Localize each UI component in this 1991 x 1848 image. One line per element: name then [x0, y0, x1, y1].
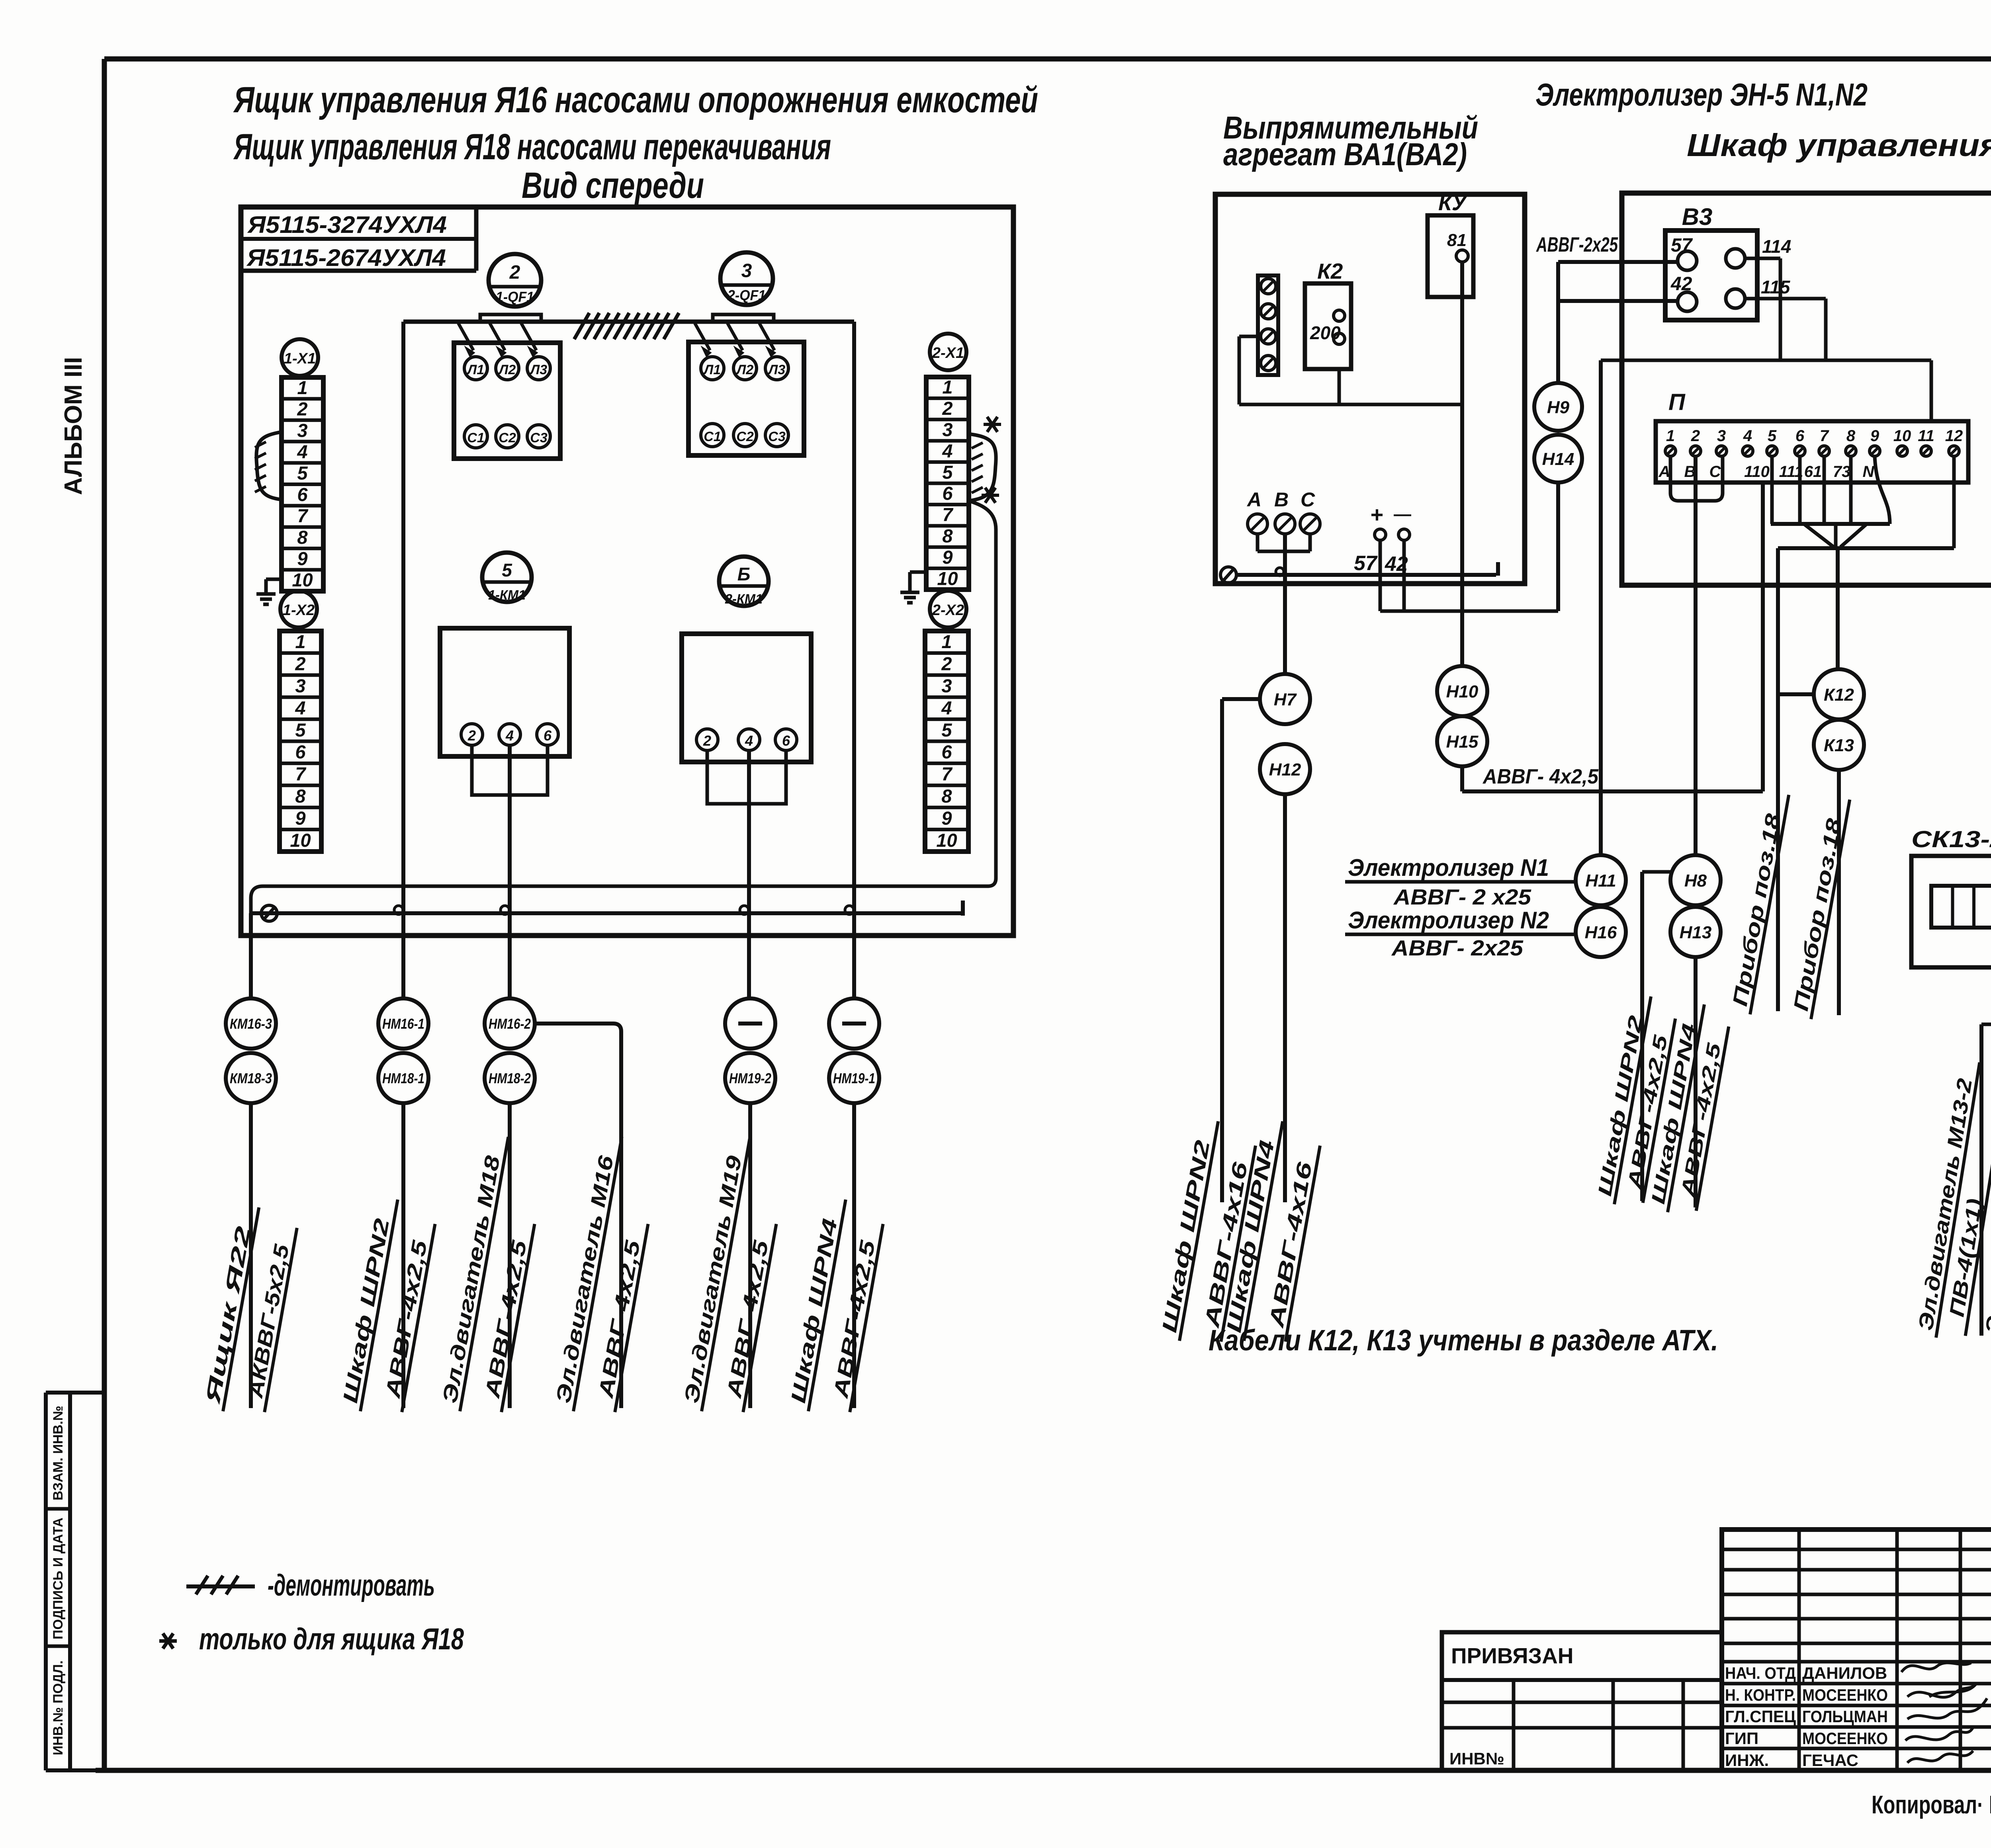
- svg-text:8: 8: [942, 525, 953, 546]
- cable circles Н10 Н15: [1437, 666, 1487, 716]
- svg-text:С1: С1: [704, 429, 721, 444]
- terminal strip 1-X2: [280, 591, 317, 627]
- svg-text:Электролизер ЭН-5 N1,N2: Электролизер ЭН-5 N1,N2: [1535, 77, 1868, 112]
- svg-text:7: 7: [295, 764, 306, 785]
- trident merge: [1804, 524, 1834, 547]
- legend demolish symbol: [186, 1584, 255, 1588]
- wire П2 drop to Н8: [1694, 456, 1698, 855]
- svg-text:4: 4: [295, 697, 305, 718]
- svg-text:7: 7: [297, 505, 308, 526]
- svg-text:ИНЖ.: ИНЖ.: [1725, 1751, 1769, 1770]
- svg-text:Н10: Н10: [1446, 682, 1479, 701]
- svg-text:ГЕЧАС: ГЕЧАС: [1802, 1751, 1858, 1770]
- wire joining phases: [1256, 534, 1260, 551]
- svg-text:9: 9: [942, 547, 952, 568]
- svg-text:Электролизер N1: Электролизер N1: [1348, 854, 1549, 881]
- wires from В3 right: [1745, 257, 1780, 260]
- svg-text:МОСЕЕНКО: МОСЕЕНКО: [1802, 1686, 1888, 1704]
- svg-text:2: 2: [942, 398, 952, 419]
- svg-text:8: 8: [295, 785, 306, 807]
- title block: attach table ПРИВЯЗАН: [1442, 1632, 1722, 1770]
- svg-text:2: 2: [467, 727, 476, 744]
- svg-text:7: 7: [941, 764, 952, 785]
- svg-text:5: 5: [502, 560, 512, 580]
- svg-text:2: 2: [703, 733, 711, 749]
- svg-text:Л1: Л1: [466, 362, 484, 377]
- svg-text:С: С: [1301, 488, 1315, 511]
- wire: П bundle down to Прибор cable 1: [1776, 548, 1780, 1011]
- svg-text:7: 7: [1820, 427, 1829, 445]
- cabinet box Я16/Я18: [241, 207, 1013, 936]
- wire: phase B drop to Н7: [1283, 534, 1287, 674]
- svg-text:115: 115: [1761, 277, 1791, 297]
- svg-text:5: 5: [941, 719, 952, 740]
- type table Я5115: [241, 269, 476, 273]
- arrows into 1-QF1 poles: [458, 323, 473, 350]
- svg-text:КУ: КУ: [1438, 190, 1468, 215]
- svg-text:3: 3: [941, 675, 952, 696]
- cable label Шкаф ШРN4: [786, 1196, 886, 1418]
- svg-text:4: 4: [297, 441, 307, 462]
- circuit breaker 2-QF1 box: [688, 342, 804, 455]
- svg-text:1-QF1: 1-QF1: [496, 289, 534, 305]
- svg-text:3: 3: [295, 675, 305, 696]
- svg-text:Н8: Н8: [1684, 871, 1707, 891]
- ground at 2-X1: [910, 570, 926, 574]
- wire across ШУ1 to П: [1601, 359, 1931, 362]
- svg-text:НАЧ. ОТД: НАЧ. ОТД: [1725, 1664, 1796, 1682]
- branch wire to М16 cable: [534, 1024, 621, 1408]
- svg-text:6: 6: [544, 727, 552, 744]
- svg-text:1: 1: [1666, 427, 1675, 445]
- svg-text:СК13-2(СК14-2): СК13-2(СК14-2): [1911, 826, 1991, 852]
- svg-text:К12: К12: [1824, 685, 1854, 705]
- svg-text:Н16: Н16: [1585, 923, 1617, 942]
- svg-text:9: 9: [1870, 427, 1880, 445]
- СК terminal strip: [1931, 886, 1991, 928]
- wire: dc +/- to Н9 cable: [1379, 540, 1382, 611]
- svg-text:Б: Б: [737, 564, 751, 584]
- svg-text:1: 1: [941, 631, 952, 652]
- svg-text:2-Х1: 2-Х1: [932, 345, 964, 361]
- svg-text:8: 8: [941, 785, 952, 807]
- svg-text:10: 10: [290, 830, 311, 851]
- svg-text:ГОЛЬЦМАН: ГОЛЬЦМАН: [1802, 1707, 1888, 1726]
- svg-text:Я5115-2674УХЛ4: Я5115-2674УХЛ4: [246, 244, 446, 271]
- wire: 1-КМ1 pole 4 drop: [508, 745, 512, 998]
- wire: below Н14: [1556, 483, 1560, 611]
- svg-text:1: 1: [942, 377, 952, 398]
- svg-text:Н9: Н9: [1547, 398, 1570, 417]
- album side label: [60, 357, 87, 495]
- svg-text:1-КМ1: 1-КМ1: [488, 588, 526, 603]
- cable circles Н9 Н14: [1534, 383, 1582, 431]
- svg-text:ВЗАМ. ИНВ.№: ВЗАМ. ИНВ.№: [51, 1406, 66, 1500]
- cable label Шкаф ШРN4 (middle): [1647, 1001, 1732, 1217]
- svg-text:АВВГ- 2 х25: АВВГ- 2 х25: [1393, 885, 1532, 909]
- svg-text:1: 1: [295, 631, 305, 652]
- left edge stamp column: [44, 1393, 48, 1770]
- svg-text:ПРИВЯЗАН: ПРИВЯЗАН: [1451, 1643, 1574, 1668]
- contactor circle 6 / 2-КМ1: [719, 557, 769, 606]
- cable drops below cabinet: [249, 913, 253, 998]
- svg-text:К13: К13: [1824, 736, 1854, 755]
- bundle bar: [1778, 546, 1954, 550]
- svg-text:Л2: Л2: [735, 362, 753, 377]
- wire: below К13 to Прибор cable 2: [1837, 770, 1841, 1015]
- svg-text:10: 10: [1893, 427, 1911, 445]
- svg-text:А: А: [1659, 463, 1670, 481]
- position circle 3 / 2-QF1: [720, 252, 773, 305]
- svg-text:Шкаф управления шу1 ( шу2): Шкаф управления шу1 ( шу2): [1687, 127, 1991, 163]
- svg-text:С3: С3: [768, 429, 786, 444]
- svg-text:С3: С3: [530, 430, 548, 445]
- svg-text:ПОДПИСЬ И ДАТА: ПОДПИСЬ И ДАТА: [51, 1518, 66, 1639]
- svg-text:8: 8: [1846, 427, 1856, 445]
- wire: left switch drop: [401, 322, 405, 913]
- svg-text:5: 5: [1768, 427, 1777, 445]
- svg-text:5: 5: [297, 463, 308, 484]
- svg-text:10: 10: [937, 568, 958, 589]
- svg-text:61: 61: [1804, 463, 1822, 481]
- control cabinet ШУ1 box: [1622, 193, 1991, 585]
- cable КМ16-3 / КМ18-3: [226, 998, 276, 1049]
- svg-text:4: 4: [505, 727, 514, 744]
- svg-text:6: 6: [297, 484, 308, 505]
- cable (removed) / НМ19-1: [829, 998, 879, 1049]
- arrows into 2-QF1 poles: [695, 323, 710, 350]
- svg-text:73: 73: [1833, 463, 1851, 481]
- svg-text:1-Х2: 1-Х2: [283, 602, 315, 619]
- svg-text:только для ящика Я18: только для ящика Я18: [199, 1622, 464, 1656]
- terminal strip 2-X1: [930, 334, 966, 370]
- terminal strip in ВА1: [1258, 275, 1278, 375]
- wire К2/strip bottom: [1239, 335, 1258, 338]
- heater bracket at 1-X1 (only for Я18): [256, 432, 282, 500]
- cable label Эл.двигатель М13-2: [1913, 1059, 1991, 1342]
- bus junctions: [394, 906, 403, 914]
- svg-text:5: 5: [942, 461, 953, 483]
- svg-text:2-КМ1: 2-КМ1: [725, 592, 763, 607]
- svg-text:НМ18-1: НМ18-1: [382, 1070, 424, 1086]
- svg-text:НМ19-1: НМ19-1: [833, 1070, 875, 1086]
- wire: 2-КМ1 pole 4 drop: [747, 750, 751, 998]
- svg-text:С: С: [1709, 463, 1721, 481]
- svg-text:АВВГ- 2х25: АВВГ- 2х25: [1391, 936, 1524, 960]
- bundle wire АВВГ-4х2,5: [1460, 766, 1464, 791]
- contactor 2-КМ1 box: [682, 634, 811, 762]
- svg-text:С1: С1: [467, 430, 484, 445]
- svg-text:Ящик управления Я16 насосам: Ящик управления Я16 насосами опорожнения…: [233, 80, 1038, 120]
- svg-text:9: 9: [295, 807, 305, 828]
- svg-text:4: 4: [1743, 427, 1752, 445]
- svg-text:3: 3: [741, 260, 752, 281]
- svg-text:ИНВ№: ИНВ№: [1449, 1749, 1504, 1768]
- svg-text:МОСЕЕНКО: МОСЕЕНКО: [1802, 1729, 1888, 1748]
- wire: drop to Н11: [1599, 360, 1603, 855]
- cable label Шкаф ШРN2 (middle): [1593, 993, 1678, 1209]
- svg-text:6: 6: [295, 741, 306, 762]
- svg-text:2: 2: [297, 399, 307, 420]
- heater bracket at 2-X1 with asterisks (only for Я18): [969, 434, 996, 529]
- wire: КУ 81 drop to Н10: [1460, 262, 1464, 666]
- title block: signature table: [1722, 1530, 1991, 1770]
- cable circles Н8 Н13: [1670, 855, 1721, 905]
- svg-text:ИНВ.№ ПОДЛ.: ИНВ.№ ПОДЛ.: [51, 1660, 66, 1755]
- svg-text:110: 110: [1744, 463, 1770, 481]
- svg-text:9: 9: [941, 807, 952, 828]
- svg-text:Н7: Н7: [1274, 690, 1297, 709]
- circuit breaker 1-QF1 box: [454, 343, 560, 459]
- cable label Эл.двигатель М19: [679, 1133, 790, 1418]
- svg-text:8: 8: [297, 527, 308, 548]
- svg-text:10: 10: [936, 830, 957, 851]
- svg-text:Вид спереди: Вид спереди: [522, 165, 704, 206]
- cable label Шкаф ШРN4 4x16: [1221, 1117, 1323, 1348]
- svg-text:2: 2: [1691, 427, 1700, 445]
- PE wire between heater brackets: [251, 529, 996, 913]
- svg-text:С2: С2: [499, 430, 516, 445]
- svg-text:П: П: [1668, 389, 1686, 415]
- svg-text:ГИП: ГИП: [1725, 1729, 1758, 1748]
- cable circles К12 К13: [1814, 669, 1864, 719]
- svg-text:Ящик управления Я18 насосам: Ящик управления Я18 насосами перекачиван…: [233, 127, 831, 167]
- wire bracket П1-П3: [1670, 456, 1723, 501]
- svg-text:А: А: [1246, 488, 1261, 511]
- svg-text:АВВГ-2х25: АВВГ-2х25: [1536, 233, 1618, 256]
- svg-text:С2: С2: [736, 429, 754, 444]
- cable НМ16-2 / НМ18-2: [485, 998, 535, 1049]
- svg-text:Н13: Н13: [1680, 923, 1712, 942]
- П bundle wires: [1771, 522, 1890, 526]
- svg-text:81: 81: [1447, 231, 1467, 250]
- cabinet PE bus: [250, 911, 963, 915]
- svg-text:К2: К2: [1317, 259, 1343, 283]
- asterisk marks: [984, 423, 1001, 426]
- wire: below Н13 to ШРN4 cable: [1694, 957, 1698, 1207]
- svg-text:АВВГ- 4х2,5: АВВГ- 4х2,5: [1482, 765, 1599, 788]
- rectifier unit ВА1 box: [1215, 194, 1525, 584]
- switch В3: [1665, 231, 1757, 320]
- svg-text:КМ16-3: КМ16-3: [230, 1016, 272, 1032]
- wire loop under 1-КМ1: [472, 745, 548, 795]
- svg-text:В: В: [1274, 488, 1289, 511]
- svg-text:3: 3: [297, 420, 307, 441]
- incoming line to switches: [403, 320, 854, 324]
- svg-text:Л1: Л1: [703, 362, 721, 377]
- svg-text:Л2: Л2: [498, 362, 516, 377]
- svg-text:4: 4: [942, 440, 952, 461]
- svg-text:—: —: [1394, 504, 1411, 524]
- wire: elbow Н8 to ШРN2 cable: [1642, 870, 1672, 874]
- legend asterisk: [159, 1639, 177, 1643]
- svg-text:12: 12: [1945, 427, 1963, 445]
- svg-text:114: 114: [1762, 236, 1791, 257]
- demolition hatch marks: [574, 313, 589, 339]
- cable circles Н11 Н16: [1576, 855, 1626, 905]
- svg-text:Н. КОНТР.: Н. КОНТР.: [1725, 1686, 1796, 1704]
- cable label Прибор поз.18 (2): [1788, 795, 1850, 1019]
- relay К2: [1305, 283, 1351, 369]
- svg-text:Копировал· Коршунова 23129-0: Копировал· Коршунова 23129-0? 13 Формат …: [1872, 1790, 1991, 1819]
- cable label Эл.двигатель М14-2: [1980, 1062, 1991, 1346]
- svg-text:2: 2: [295, 653, 305, 674]
- wire: elbow М13-2 cable: [1981, 1023, 1991, 1026]
- svg-text:В3: В3: [1682, 203, 1713, 230]
- svg-text:2: 2: [509, 262, 520, 283]
- svg-text:НМ19-2: НМ19-2: [729, 1070, 771, 1086]
- wire: elbow to ШРN2 cable: [1222, 697, 1260, 701]
- svg-text:6: 6: [941, 741, 952, 762]
- svg-text:1: 1: [297, 377, 307, 398]
- cable label Эл.двигатель М16: [551, 1133, 662, 1418]
- svg-text:6: 6: [1795, 427, 1805, 445]
- svg-text:Л3: Л3: [529, 362, 547, 377]
- svg-text:Н14: Н14: [1542, 449, 1574, 469]
- terminal strip 1-X1: [282, 339, 318, 376]
- svg-text:Кабели К12, К13 учтены в р: Кабели К12, К13 учтены в разделе АТХ.: [1209, 1324, 1718, 1357]
- svg-text:3: 3: [1717, 427, 1726, 445]
- svg-text:НМ16-2: НМ16-2: [489, 1016, 531, 1032]
- svg-text:3: 3: [942, 419, 952, 440]
- svg-text:2-Х2: 2-Х2: [932, 602, 964, 619]
- terminal strip 2-X2: [930, 591, 966, 627]
- cable label Шкаф ШРN2 4x16: [1157, 1117, 1259, 1348]
- svg-text:4: 4: [941, 697, 952, 718]
- svg-text:АЛЬБОМ III: АЛЬБОМ III: [60, 357, 87, 495]
- contactor circle 5 / 1-КМ1: [482, 553, 532, 602]
- svg-text:НМ16-1: НМ16-1: [382, 1016, 424, 1032]
- svg-text:7: 7: [942, 504, 953, 525]
- svg-text:Н12: Н12: [1269, 760, 1301, 779]
- contactor 1-КМ1 box: [440, 628, 569, 756]
- svg-text:агрегат ВА1(ВА2): агрегат ВА1(ВА2): [1223, 137, 1467, 172]
- svg-text:Я5115-3274УХЛ4: Я5115-3274УХЛ4: [247, 211, 447, 238]
- svg-text:НМ18-2: НМ18-2: [489, 1070, 531, 1086]
- svg-text:2-QF1: 2-QF1: [727, 287, 766, 303]
- cable label Эл.двигатель М18: [437, 1133, 549, 1418]
- svg-text:10: 10: [292, 569, 313, 590]
- svg-text:+: +: [1371, 502, 1384, 527]
- svg-text:9: 9: [297, 548, 307, 569]
- ground at 1-X1: [266, 578, 282, 581]
- control unit КУ: [1428, 215, 1473, 297]
- svg-text:57: 57: [1354, 552, 1378, 575]
- svg-text:4: 4: [745, 733, 753, 749]
- svg-text:Л3: Л3: [767, 362, 785, 377]
- cable (removed) / НМ19-2: [725, 998, 775, 1049]
- svg-text:5: 5: [295, 719, 306, 740]
- svg-text:6: 6: [782, 733, 790, 749]
- svg-text:КМ18-3: КМ18-3: [230, 1070, 272, 1086]
- wire: Н9 feed from В3 57/42: [1558, 260, 1678, 264]
- svg-text:11: 11: [1918, 427, 1934, 445]
- ВА1 PE bus: [1220, 567, 1236, 583]
- svg-text:6: 6: [942, 483, 953, 504]
- wire: below Н12 to ШРN4 cable: [1283, 794, 1287, 1202]
- svg-text:Электролизер N2: Электролизер N2: [1348, 907, 1549, 934]
- cable label Прибор поз.18 (1): [1727, 791, 1789, 1014]
- cable label Шкаф ШРN2: [338, 1196, 438, 1418]
- cable label Ящик Я22: [200, 1203, 299, 1418]
- svg-text:1-Х1: 1-Х1: [284, 350, 316, 367]
- position circle 2 / 1-QF1: [489, 254, 541, 307]
- svg-text:Н11: Н11: [1585, 871, 1616, 891]
- wire: right switch drop: [852, 322, 856, 913]
- svg-text:2: 2: [941, 653, 952, 674]
- svg-text:ГЛ.СПЕЦ: ГЛ.СПЕЦ: [1725, 1707, 1796, 1726]
- svg-text:ДАНИЛОВ: ДАНИЛОВ: [1802, 1664, 1887, 1682]
- svg-text:Н15: Н15: [1446, 732, 1479, 752]
- svg-text:N: N: [1863, 463, 1875, 481]
- cable НМ16-1 / НМ18-1: [378, 998, 428, 1049]
- cable circles Н7 Н12: [1260, 674, 1310, 724]
- wire loop under 2-КМ1: [707, 750, 786, 804]
- svg-text:-демонтировать: -демонтировать: [268, 1569, 435, 1602]
- drawing frame border: [104, 57, 1991, 62]
- signatures: [1901, 1663, 1971, 1672]
